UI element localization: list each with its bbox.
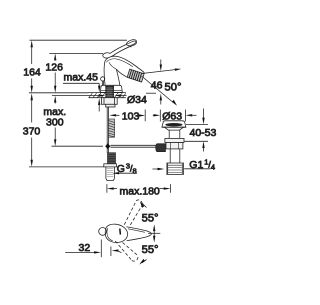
dimension 46 [160,60,162,105]
svg-text:32: 32 [79,242,91,254]
junction node on rod [105,143,110,149]
top-view dashed lever up [124,200,142,225]
svg-text:126: 126 [45,61,63,73]
dimension 126 [49,52,103,54]
arc arrow top [142,203,147,207]
washer [165,138,184,142]
dimension 103 [109,114,116,116]
flexible hose / pop-up rod column [107,107,114,153]
dimension max.180 [107,184,171,193]
svg-text:50°: 50° [165,81,182,93]
base escutcheon [100,85,122,92]
extension line max300 bottom / pop-up rod line [52,145,104,147]
drain neck [168,130,170,138]
angle double arrow [153,224,155,242]
arc arrow bottom [142,260,147,263]
extension line bottom (hose end) [29,166,104,168]
drain flange dome [162,121,186,127]
dimension 40-53 [186,124,208,126]
hose end connector G3/8 [104,153,117,181]
locknut [101,98,117,107]
svg-text:300: 300 [46,117,64,129]
svg-text:Ø34: Ø34 [127,94,147,106]
dimension 370 [31,93,33,167]
lever axis extension [148,232,160,234]
thread G1 1/4 [167,163,184,176]
svg-text:55°: 55° [142,212,159,224]
svg-text:370: 370 [23,125,41,137]
tailpipe [169,149,171,163]
top-view lever [126,227,151,241]
threaded shank [106,86,114,99]
body [104,56,144,87]
dimension Ø34 line [52,95,100,97]
svg-text:40-53: 40-53 [190,127,217,139]
rod clamp knob [156,144,166,152]
top-view knob [99,228,107,236]
pop-up rod knob [101,77,105,81]
extension stub under 46 [146,92,156,94]
svg-text:103: 103 [122,110,140,122]
extension line top (overall height ref) [30,39,128,41]
svg-text:max.45: max.45 [64,72,99,84]
extension line deck top left [29,92,89,94]
50 degree legs [142,70,176,74]
top-view dashed lever down [115,241,138,261]
lever handle [103,41,137,58]
label G1 1/4 [153,168,159,170]
dimension 164 [31,40,33,93]
locknut [166,143,183,149]
dimension Ø63 [153,110,197,122]
svg-text:max.180: max.180 [120,185,160,197]
deck [89,93,126,98]
svg-text:164: 164 [23,66,41,78]
svg-text:55°: 55° [142,244,159,256]
dimension max.300 [54,96,56,147]
spout aerator [127,69,144,82]
horizontal pop-up linkage rod [110,144,156,146]
top-view body cap [105,224,127,242]
